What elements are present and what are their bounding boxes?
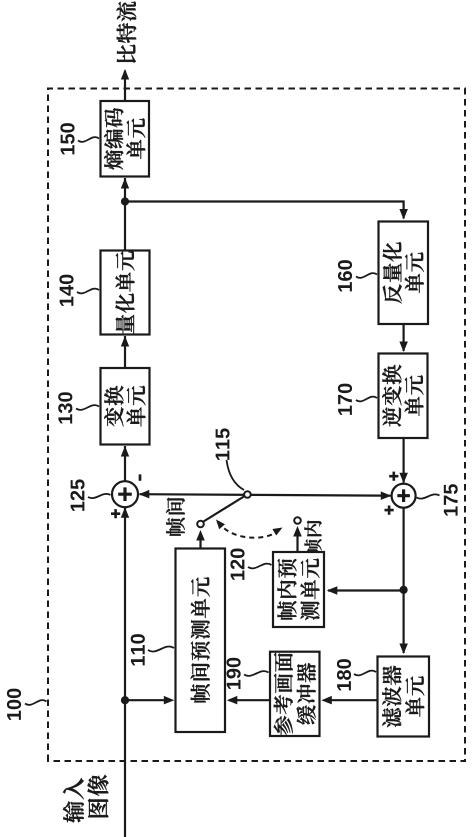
- leader tilde for 180: [354, 671, 376, 676]
- adder 175 circle: [392, 484, 416, 508]
- block 170 text 单元 line2: [404, 375, 423, 416]
- label 150: [60, 123, 74, 154]
- arrowhead into box 180 right side: [399, 644, 408, 655]
- switch common contact circle: [244, 491, 251, 498]
- block 190 text 缓冲器 line2: [297, 663, 316, 725]
- leader tilde for 140: [77, 289, 99, 294]
- leader tilde for 110: [148, 646, 174, 651]
- junction dot after quantization: [121, 197, 129, 205]
- plus sign label on top-left input of adder 175: [385, 506, 394, 515]
- block 150 text 熵编码 line1: [104, 108, 123, 170]
- plus symbol inside adder 175: [397, 489, 410, 502]
- junction dot on input wire: [121, 696, 129, 704]
- block 150 text 单元 line2: [126, 118, 145, 159]
- block 160 text 单元 line2: [405, 252, 424, 293]
- block 160 text 反量化 line1: [383, 242, 402, 303]
- label 115: [216, 428, 230, 460]
- arrowhead into box 110 bottom: [227, 696, 238, 705]
- wire adder 125 to box 130: [124, 446, 126, 481]
- adder (subtractor) 125 circle: [112, 481, 138, 507]
- wire junction down right side to inverse quantization unit: [125, 202, 404, 219]
- leader tilde for 150: [78, 137, 99, 142]
- block 130 transform unit box: [101, 368, 150, 445]
- block 160 inverse quantization unit box: [379, 222, 429, 325]
- label 190: [227, 658, 241, 689]
- wire box 140 to box 150: [124, 178, 126, 251]
- wire box 170 to adder 175: [403, 438, 405, 483]
- arrowhead toward intra contact: [293, 526, 302, 537]
- leader tilde for 120: [248, 564, 272, 569]
- block 140 quantization unit box: [101, 251, 150, 335]
- label 120: [230, 549, 244, 580]
- leader tilde for 170: [356, 397, 377, 402]
- block 120 text 测单元 line2: [300, 559, 319, 621]
- node bitstream text 比特流: [117, 2, 137, 63]
- arrowhead into adder 175 right side: [399, 473, 408, 484]
- arrowhead into adder 125 bottom: [139, 490, 150, 499]
- block 150 entropy coding unit box: [101, 101, 150, 177]
- minus sign label on prediction input of adder 125: [139, 474, 142, 480]
- block 180 text 滤波器 line1: [382, 666, 401, 728]
- wire junction up to box 120 bottom: [328, 589, 404, 591]
- wire junction down to inter prediction unit 110 top: [125, 699, 170, 701]
- block 190 reference picture buffer box: [270, 652, 320, 736]
- arrowhead into adder 175 top: [381, 491, 392, 500]
- switch inter throw contact circle: [197, 521, 204, 528]
- block 140 text 量化单元: [115, 251, 134, 333]
- wire box 110 output to inter contact: [199, 539, 201, 549]
- block 120 text 帧内预 line1: [277, 559, 296, 620]
- label 140: [59, 275, 73, 306]
- switch intra throw contact circle: [294, 517, 301, 524]
- arrowhead into adder 125 left: [121, 507, 129, 518]
- wire box 120 output to intra contact: [296, 535, 298, 552]
- block 110 inter prediction unit box: [176, 549, 226, 733]
- leader tilde for 100: [25, 700, 47, 705]
- block 180 filter unit box: [378, 657, 430, 737]
- plus sign label on input of adder 125: [111, 509, 120, 518]
- label 125: [70, 479, 84, 511]
- wire box 130 to box 140: [124, 336, 126, 368]
- node input image text 输入图像 line 1: [63, 778, 84, 823]
- block 110 text 帧间预测单元: [191, 577, 210, 702]
- plus symbol inside adder 125: [118, 487, 132, 501]
- block 170 inverse transform unit box: [379, 354, 428, 439]
- label 180: [337, 659, 351, 690]
- node label 帧间 (inter): [166, 498, 185, 536]
- block 170 text 逆变换 line1: [382, 365, 401, 427]
- wire box 190 to box 110: [229, 699, 270, 701]
- arrowhead into box 120 bottom: [327, 586, 338, 595]
- block 130 text 单元 line2: [126, 386, 145, 427]
- wire box 160 to box 170: [403, 324, 405, 351]
- leader tilde for 125: [88, 494, 111, 498]
- leader tilde for 175: [417, 494, 440, 498]
- label 100: [7, 689, 21, 720]
- leader tilde for 160: [356, 273, 377, 278]
- dashed enclosure box 100 (encoder apparatus boundary): [48, 89, 465, 762]
- arrowhead into box 160 right side: [399, 209, 408, 220]
- arrowhead of dashed motion arc lower end: [272, 528, 282, 536]
- wire prediction signal vertical through switch common: [140, 494, 391, 496]
- arrowhead bitstream output: [121, 69, 129, 80]
- arrowhead into box 110 top: [164, 696, 175, 705]
- node input image text 输入图像 line 2: [88, 775, 109, 817]
- label 110: [131, 634, 145, 665]
- label 130: [58, 392, 72, 423]
- wire adder 175 output to filter unit 180: [403, 508, 405, 653]
- label 175: [444, 484, 458, 516]
- leader curve for 115: [227, 460, 245, 490]
- block 120 intra prediction unit box: [273, 552, 324, 627]
- switch 115 lever arm: [204, 496, 246, 522]
- block 190 text 参考画面 line1: [274, 653, 293, 736]
- wire box 150 to bitstream output: [124, 71, 126, 102]
- leader tilde for 130: [76, 405, 99, 410]
- arrowhead into box 140: [121, 336, 129, 347]
- arrowhead toward inter contact: [196, 530, 205, 541]
- block 130 text 变换 line1: [104, 386, 123, 427]
- wire input image to adder 125: [124, 507, 126, 837]
- junction dot on reconstruction wire: [400, 586, 408, 594]
- arrowhead into box 190 bottom: [321, 696, 332, 705]
- wire box 180 to box 190: [324, 699, 378, 701]
- block 180 text 单元 line2: [405, 676, 424, 716]
- arrowhead into box 150: [121, 178, 129, 189]
- plus sign label on top-right input of adder 175: [389, 472, 398, 481]
- dashed switch motion arc: [219, 522, 278, 538]
- arrowhead into box 170 right side: [399, 342, 408, 353]
- label 160: [338, 260, 352, 291]
- leader tilde for 190: [244, 671, 269, 676]
- arrowhead into box 130: [121, 446, 129, 457]
- arrowhead of dashed motion arc upper end: [216, 520, 225, 530]
- label 170: [338, 384, 352, 415]
- node label 帧内 (intra): [304, 520, 321, 555]
